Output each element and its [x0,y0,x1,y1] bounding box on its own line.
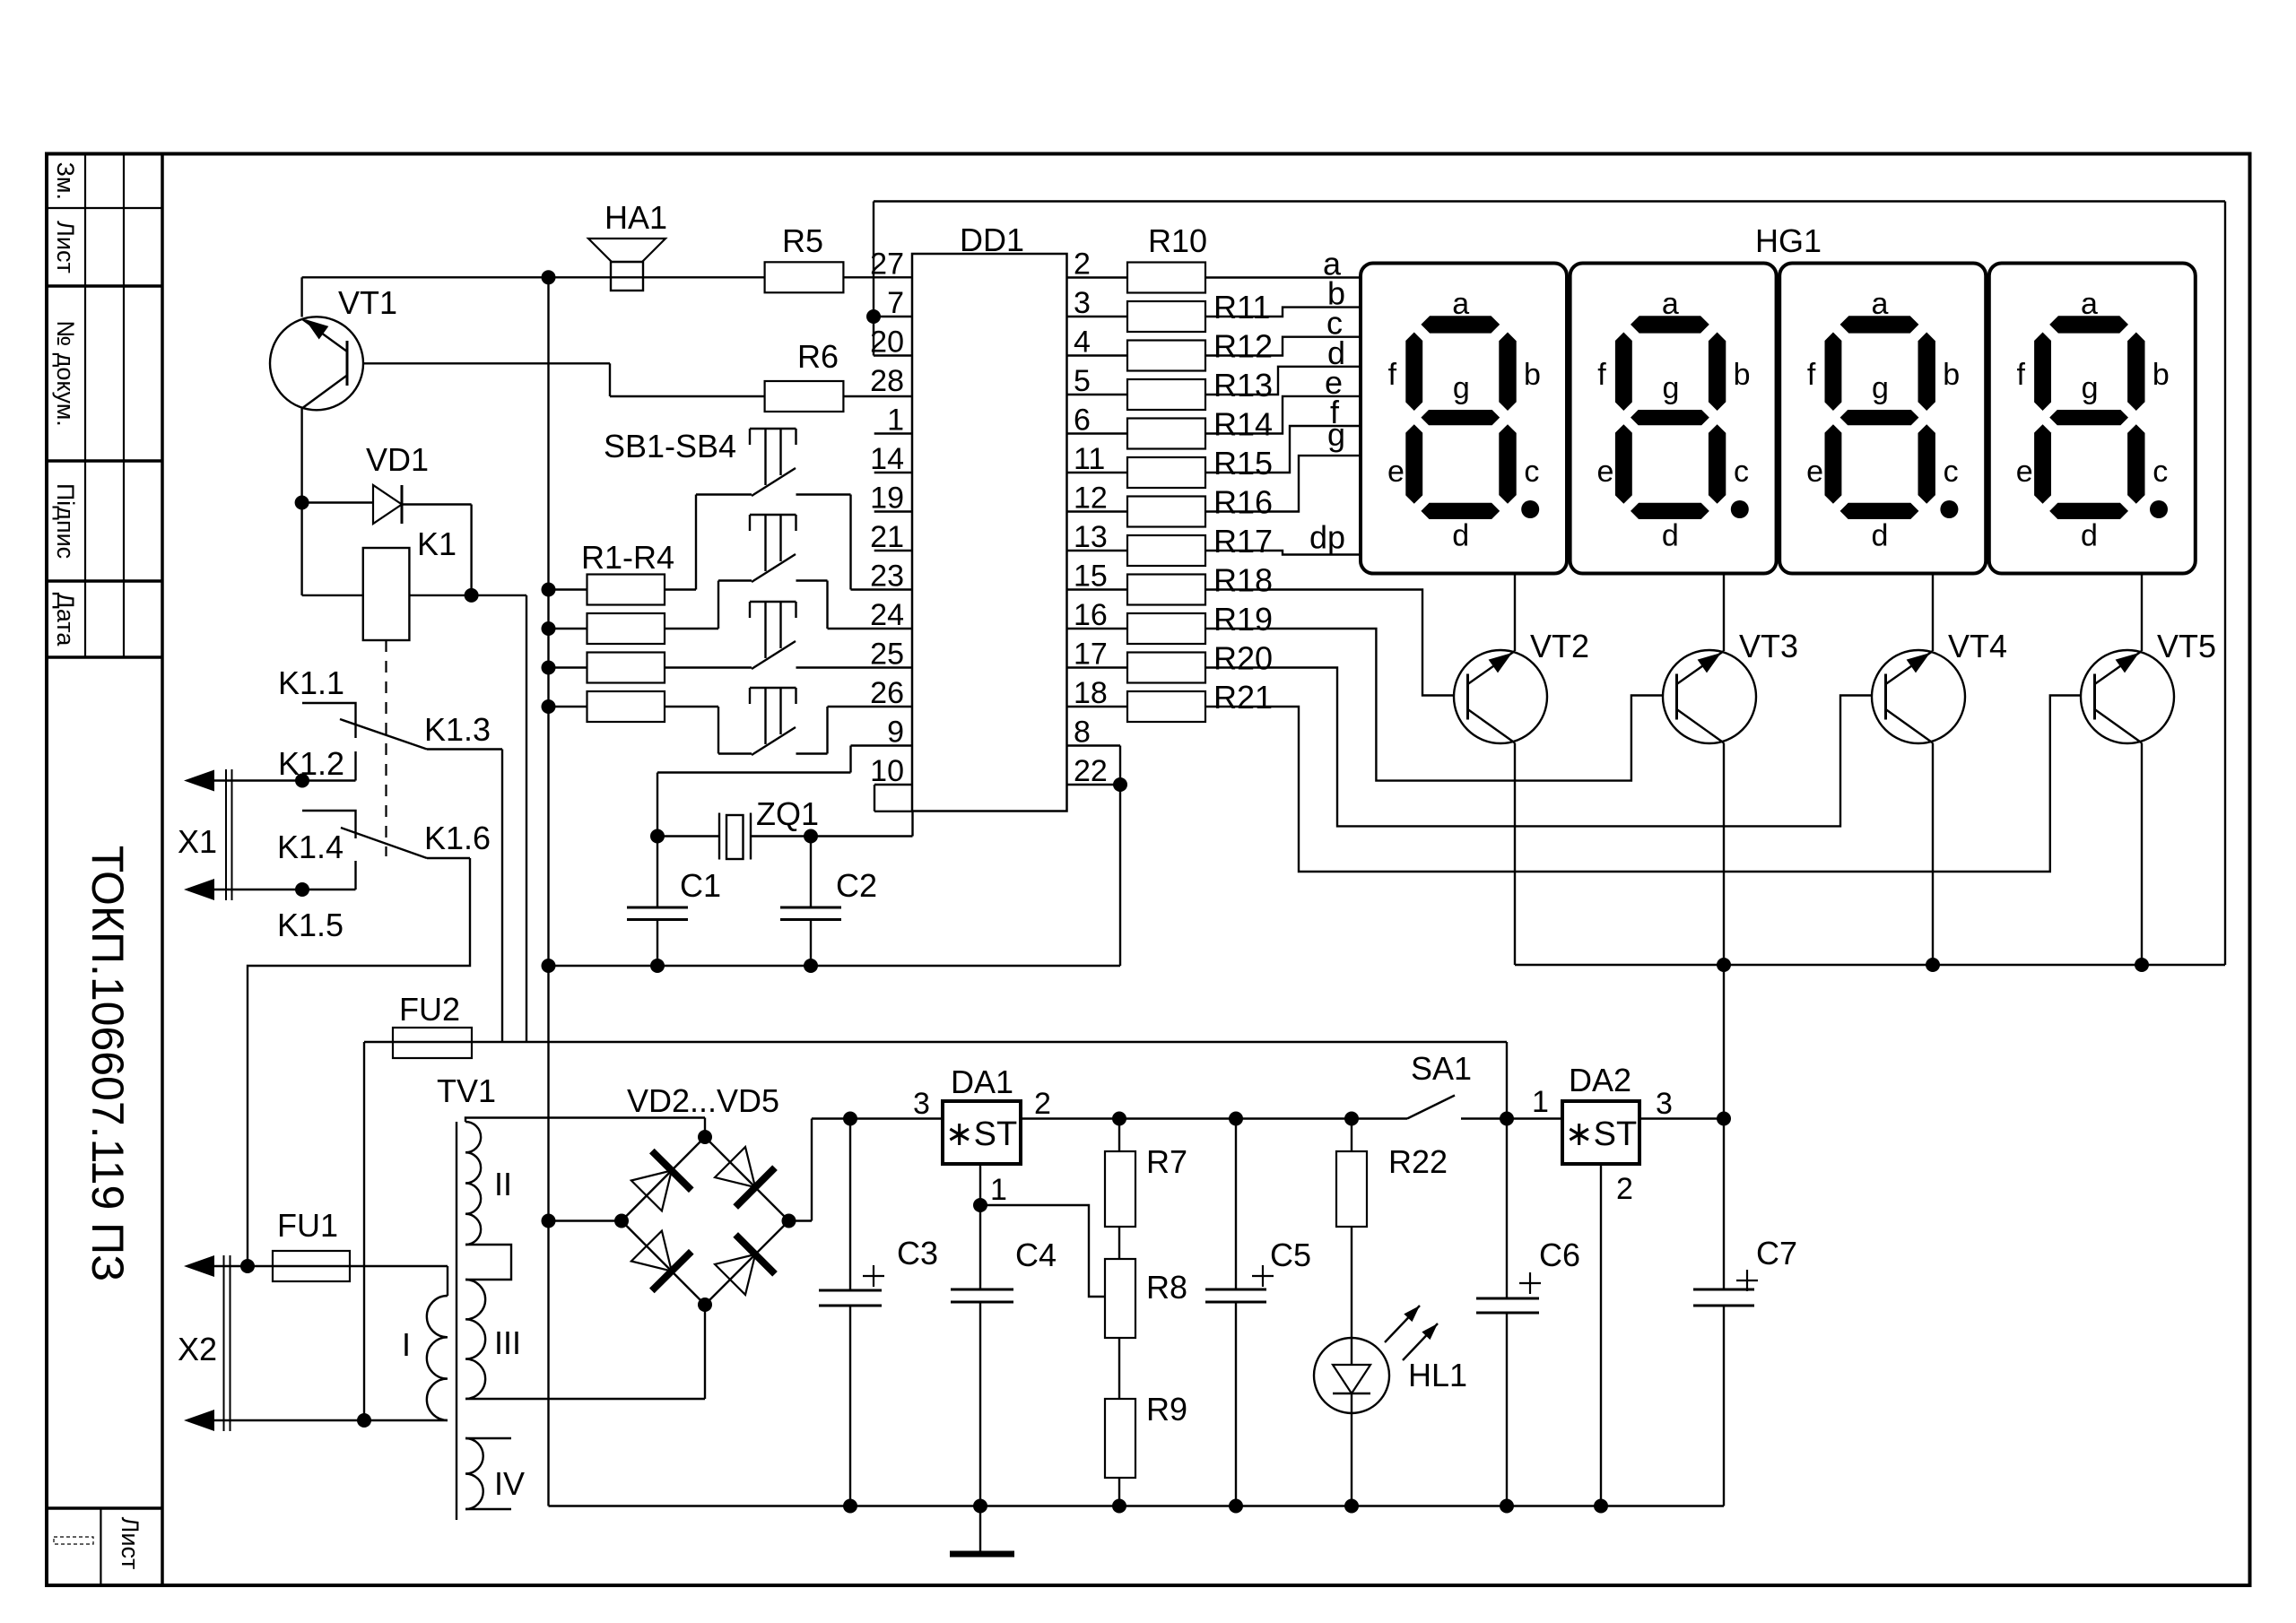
wire: K1 right net down to mains rail [526,595,527,1042]
svg-text:VT5: VT5 [2157,628,2216,664]
svg-text:R16: R16 [1213,484,1273,521]
connector X2 [184,1255,214,1277]
svg-text:R22: R22 [1388,1143,1448,1180]
svg-text:R17: R17 [1213,523,1273,560]
diode VD2 (top-left, to +AC top) [631,1170,672,1211]
wire: R18 to VT2 base [1205,590,1454,696]
seven-segment digit 2 of HG1 [1570,264,1777,574]
transistor VT1 [270,317,363,410]
LED HL1 arrows [1385,1306,1420,1342]
winding IV [465,1438,483,1509]
svg-text:R20: R20 [1213,640,1273,677]
diode VD1 [302,501,373,503]
junction dot FU1/K1.6 feed [240,1259,255,1273]
wire: segment dp [1205,551,1361,555]
svg-text:f: f [1807,358,1816,392]
svg-text:1: 1 [887,404,904,438]
svg-text:d: d [1871,519,1888,553]
svg-text:24: 24 [870,598,904,632]
junction dot pin7 [866,309,881,324]
wire: X2 bottom to winding I [214,1419,448,1421]
resistor R11 [1067,316,1128,317]
wire: SB2 right to pin24 [796,579,828,581]
resistor R3 [549,666,587,668]
svg-text:VT1: VT1 [338,284,397,321]
svg-text:22: 22 [1074,754,1108,788]
wire: K1 coil right to net [409,595,526,596]
wire: SB4 right to pin26 [796,752,828,754]
svg-text:∗ST: ∗ST [1565,1115,1637,1153]
wire: SB2 left lead [718,579,752,581]
contact lever K1.6 [341,828,427,858]
wire: SB1 right to pin23 [796,493,851,495]
svg-text:1: 1 [1532,1085,1549,1119]
capacitor C7 [1723,965,1725,1289]
svg-text:R5: R5 [782,222,823,259]
svg-text:VD2...VD5: VD2...VD5 [627,1082,779,1119]
svg-text:R21: R21 [1213,679,1273,716]
resistor R1 [549,588,587,590]
bottom cell divider [100,1508,101,1585]
svg-text:R12: R12 [1213,328,1273,365]
svg-text:11: 11 [1074,442,1105,476]
svg-text:13: 13 [1074,520,1108,554]
junction dot rail/SA1 output [1500,1112,1514,1126]
wire: HG1 digit1 common to VT2 [1514,574,1516,652]
svg-text:ТОКП.106607.119 ПЗ: ТОКП.106607.119 ПЗ [83,846,133,1282]
capacitor C1 [657,837,658,908]
svg-text:14: 14 [870,442,904,476]
svg-text:5: 5 [1074,364,1091,398]
svg-text:b: b [1524,358,1541,392]
switch SA1 [1407,1096,1455,1119]
svg-text:HG1: HG1 [1755,222,1822,259]
svg-text:a: a [1871,287,1888,321]
wire: segment g [1205,456,1361,511]
wire: VT3 collector down [1723,743,1725,966]
wire: segment a [1205,276,1361,278]
svg-text:e: e [1597,455,1614,489]
svg-text:C2: C2 [836,867,877,904]
wire: VT1 collector down [300,409,302,503]
junction dot VT3 rail [1717,958,1731,972]
push button SB3 [750,601,796,603]
junction dot pin22 [1113,777,1127,792]
svg-text:I: I [402,1326,411,1363]
svg-text:1: 1 [990,1173,1007,1207]
svg-text:C3: C3 [897,1235,938,1271]
svg-text:25: 25 [870,638,904,672]
svg-text:b: b [2152,358,2170,392]
svg-text:a: a [1662,287,1679,321]
svg-text:IV: IV [494,1465,525,1502]
winding I (primary) [447,1266,448,1296]
wire: VT4 collector down [1932,743,1934,966]
seven-segment digit 4 of HG1 [1989,264,2196,574]
svg-text:17: 17 [1074,638,1108,672]
fuse FU2 [393,1028,472,1058]
svg-text:f: f [1597,358,1606,392]
junction dot ZQ1 right [804,829,818,844]
svg-text:DA1: DA1 [951,1063,1013,1100]
svg-text:C4: C4 [1015,1237,1057,1273]
svg-text:K1.6: K1.6 [424,820,491,856]
seven-segment digit 3 of HG1 [1779,264,1986,574]
transformer TV1 core [456,1122,457,1520]
svg-text:C6: C6 [1539,1237,1580,1273]
svg-text:R18: R18 [1213,562,1273,599]
wire: R1 to SB1 [665,588,696,590]
svg-text:g: g [1453,371,1470,405]
resistor R7 [1118,1119,1120,1152]
svg-text:e: e [1387,455,1405,489]
transistor VT2 [1454,650,1547,743]
wire: left common vertical x611.5 [547,277,549,1506]
seven-segment digit 1 of HG1 [1361,264,1567,574]
svg-text:FU2: FU2 [399,991,460,1028]
svg-text:R19: R19 [1213,601,1273,638]
svg-text:Підпис: Підпис [52,483,79,559]
wire: R20 to VT4 base [1205,668,1872,827]
crystal ZQ1 [657,835,719,837]
diode VD3 (top-right, to DC+) [715,1147,755,1187]
svg-text:g: g [1327,416,1345,453]
svg-text:K1.1: K1.1 [278,664,344,701]
wire: bottom ground rail y1679.5 [549,1505,1725,1506]
svg-text:VD1: VD1 [366,441,429,478]
wire: bridge left to common [549,1219,622,1221]
title strip row lines [47,207,162,209]
svg-text:C7: C7 [1756,1235,1797,1271]
svg-text:c: c [1524,455,1539,489]
resistor R9 [1118,1338,1120,1399]
wire: R4 to SB4 [665,706,718,707]
svg-text:28: 28 [870,364,904,398]
svg-text:R11: R11 [1213,289,1270,325]
capacitor C6 [1506,1119,1508,1299]
wire: crystal ground rail y1077 [549,965,1121,967]
push button SB4 [750,687,796,689]
svg-text:8: 8 [1074,716,1091,750]
resistor R22 [1351,1119,1352,1152]
resistor R18 [1067,588,1128,590]
svg-text:4: 4 [1074,325,1091,360]
wire: R3 to SB3 [665,666,752,668]
junction dot VT5 rail [2135,958,2149,972]
winding III [465,1280,485,1399]
wire: mains rail y1162 [364,1041,1507,1043]
svg-text:Лист: Лист [117,1517,143,1570]
wire: DA1 rail y1247.5 [812,1117,943,1119]
bottom cell dashed placeholder [54,1537,93,1544]
svg-text:f: f [1388,358,1397,392]
resistor R10 [1067,276,1128,278]
svg-text:R7: R7 [1146,1143,1187,1180]
resistor R8 (with tap) [1118,1227,1120,1259]
wire: SB1 left lead [696,493,752,495]
transistor VT4 [1872,650,1965,743]
resistor R6 [765,381,844,412]
wire: R2 to SB2 [665,628,718,629]
svg-text:23: 23 [870,560,904,594]
svg-text:SB1-SB4: SB1-SB4 [604,428,736,464]
svg-text:3: 3 [1074,286,1091,320]
svg-text:d: d [2081,519,2098,553]
svg-text:SA1: SA1 [1411,1050,1472,1087]
title strip column lines [84,154,86,658]
voltage regulator DA1 [943,1101,1021,1164]
svg-text:K1.2: K1.2 [278,745,344,782]
resistor R21 [1067,706,1128,707]
svg-text:26: 26 [870,676,904,710]
svg-text:e: e [2016,455,2033,489]
svg-text:dp: dp [1309,519,1345,556]
wire: HG1 digit2 common to VT3 [1723,574,1725,652]
wire: right supply drop x2481 [2224,202,2226,966]
resistor R17 [1067,550,1128,551]
resistor R12 [1067,354,1128,356]
svg-text:g: g [1872,371,1889,405]
svg-text:K1.4: K1.4 [277,829,344,865]
contact K1.1 (fixed) [302,703,356,738]
resistor R5 [765,262,844,292]
svg-text:Дата: Дата [52,593,79,647]
junction dot X1 pin1 wire [295,774,309,788]
fuse FU1 [214,1265,448,1267]
wire: K1 coil left [300,503,302,595]
push button SB1 [750,428,796,430]
junction dot X2 bottom [357,1413,371,1428]
loudspeaker HA1 [588,239,665,262]
bridge edges / wires [622,1137,705,1221]
resistor R14 [1067,432,1128,434]
svg-text:16: 16 [1074,598,1108,632]
wire: R19 to VT3 base [1205,629,1663,781]
svg-text:d: d [1452,519,1469,553]
capacitor C3 [849,1119,851,1291]
diode VD4 (bottom-left, to AC bottom) [631,1231,672,1271]
junction dot X1 pin2 wire [295,882,309,897]
contact K1.5 (fixed) wire to X1 [354,861,356,890]
svg-text:DA2: DA2 [1569,1062,1631,1098]
wire: segment b [1205,308,1361,317]
svg-text:c: c [1944,455,1959,489]
svg-text:∗ST: ∗ST [945,1115,1017,1153]
svg-text:R13: R13 [1213,367,1273,404]
svg-text:7: 7 [887,286,904,320]
junction dot VD1 cathode / K1 right [465,588,479,603]
svg-text:R6: R6 [797,338,839,375]
winding II [465,1122,481,1245]
svg-text:VT4: VT4 [1948,628,2007,664]
svg-text:6: 6 [1074,404,1091,438]
capacitor C5 [1235,1119,1237,1290]
svg-text:a: a [2081,287,2098,321]
svg-text:II: II [494,1166,512,1202]
node A junction dot (x611.5,y309) [542,270,556,284]
wire: segment c [1205,337,1361,356]
svg-text:21: 21 [870,520,904,554]
svg-text:R14: R14 [1213,406,1273,443]
wire: VT1 emitter to top node A (y309) [302,276,765,278]
svg-text:9: 9 [887,716,904,750]
resistor R20 [1067,666,1128,668]
svg-text:III: III [494,1324,521,1361]
svg-text:b: b [1943,358,1960,392]
svg-text:g: g [1662,371,1679,405]
junction dot bridge-left common [542,1214,556,1228]
wire: bridge right to C3/DA1 [789,1219,813,1221]
resistor R13 [1067,394,1128,395]
svg-text:12: 12 [1074,482,1108,516]
svg-text:C5: C5 [1270,1237,1311,1273]
svg-text:c: c [2152,455,2168,489]
svg-text:K1.5: K1.5 [277,907,344,943]
wire: bridge bottom to winding III [704,1305,706,1399]
svg-text:VT2: VT2 [1530,628,1589,664]
relay coil K1 [363,548,410,640]
wire: collector rail y1076 [1515,964,2225,966]
svg-text:K1.3: K1.3 [424,711,491,748]
svg-text:R9: R9 [1146,1391,1187,1428]
wire: X2 feed vertical x406 [363,1042,365,1420]
svg-text:HL1: HL1 [1408,1357,1467,1393]
push button SB2 [750,514,796,516]
capacitor C2 [810,837,812,908]
svg-text:10: 10 [870,754,904,788]
wire: R21 to VT5 base [1205,696,2081,872]
svg-text:18: 18 [1074,676,1108,710]
resistor R2 [549,628,587,629]
wire: segment f [1205,426,1361,473]
svg-text:Зм.: Зм. [52,162,79,200]
IC DD1 [912,254,1067,811]
junction dot VT1 collector / VD1 anode [295,496,309,510]
junction dot ZQ1 left [650,829,665,844]
svg-text:ZQ1: ZQ1 [756,795,819,832]
wire: DA1 pin1 to R8 tap [979,1164,981,1205]
svg-text:e: e [1806,455,1823,489]
wire: VT1 base to R6 [363,362,610,364]
wire: bridge top to winding II [704,1118,706,1138]
wire: VT5 collector down [2141,743,2143,966]
svg-text:R10: R10 [1148,222,1207,259]
svg-text:27: 27 [870,247,904,282]
svg-text:a: a [1452,287,1469,321]
wire: rail down to DA rail [1506,1042,1508,1119]
wire: pins 7-20 tie, up to top rail [873,202,874,356]
resistor R15 [1067,472,1128,473]
wire: DA2 pin2 to ground rail [1600,1164,1602,1506]
contact K1.4 (fixed) [302,811,356,838]
title strip right border [161,154,164,1586]
ground symbol [979,1506,981,1555]
svg-text:c: c [1734,455,1749,489]
DD1 unconnected stubs pins 1,14,19,21 [874,432,912,434]
diode VD5 (bottom-right, to DC+) [715,1254,755,1295]
wire: SB4 left lead [718,752,752,754]
svg-text:15: 15 [1074,560,1108,594]
bridge corner dots [698,1130,712,1144]
wire: top supply rail y224.5 [874,200,2225,202]
svg-text:FU1: FU1 [277,1207,338,1244]
svg-text:VT3: VT3 [1739,628,1798,664]
svg-text:19: 19 [870,482,904,516]
svg-text:R15: R15 [1213,445,1273,482]
wire: segment d [1205,367,1361,395]
voltage regulator DA2 [1562,1101,1639,1164]
resistor R19 [1067,628,1128,629]
svg-text:X2: X2 [178,1331,217,1367]
LED HL1 [1314,1338,1389,1413]
svg-text:DD1: DD1 [960,221,1024,258]
wire: segment e [1205,396,1361,434]
svg-text:d: d [1662,519,1679,553]
svg-text:№ докум.: № докум. [52,320,79,427]
svg-text:20: 20 [870,325,904,360]
svg-text:g: g [2082,371,2099,405]
wire: VT2 collector down [1514,743,1516,966]
wire: pin8 / pin22 to ground rail [1067,744,1121,746]
svg-text:2: 2 [1074,247,1091,282]
svg-text:R8: R8 [1146,1269,1187,1306]
wire: pin9 to ZQ1 left [851,744,913,746]
svg-text:2: 2 [1616,1172,1633,1206]
svg-text:TV1: TV1 [437,1072,496,1109]
resistor R16 [1067,510,1128,512]
resistor R4 [549,706,587,707]
svg-text:3: 3 [1656,1087,1673,1121]
svg-text:b: b [1734,358,1751,392]
svg-text:HA1: HA1 [604,199,667,236]
svg-text:R1-R4: R1-R4 [581,539,674,576]
svg-text:f: f [2016,358,2025,392]
mechanical link dashed K1 [385,640,387,856]
transistor VT3 [1663,650,1756,743]
svg-text:X1: X1 [178,823,217,860]
svg-text:K1: K1 [417,525,457,562]
wire: HG1 digit4 common to VT5 [2141,574,2143,652]
contact K1.2 (fixed) wire to X1 [354,751,356,781]
capacitor C4 [979,1205,981,1289]
contact lever K1.3 [340,719,427,750]
svg-text:C1: C1 [680,867,721,904]
svg-text:3: 3 [913,1087,930,1121]
wire: pin10 to ZQ1 right [874,784,912,785]
transistor VT5 [2081,650,2174,743]
svg-text:Лист: Лист [52,221,79,273]
wire: SB3 right to pin25 [796,666,913,668]
svg-text:2: 2 [1034,1087,1051,1121]
junction dot VT4 rail [1926,958,1940,972]
wire: HG1 digit3 common to VT4 [1932,574,1934,652]
connector X1 [184,770,214,792]
